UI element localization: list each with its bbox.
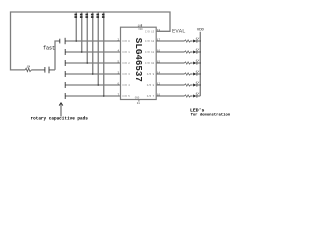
LED D6 (193, 92, 199, 97)
IC pin GND tick (bottom) (138, 100, 140, 102)
svg-text:17: 17 (157, 38, 161, 41)
resistor R7 (LED branch 6) (185, 95, 191, 97)
svg-text:I/O 13: I/O 13 (145, 31, 155, 34)
sense capacitor on pad vertical 2 (80, 14, 83, 18)
junction node pad1/pin1 (76, 40, 78, 42)
wire: pad line 3 to IC pin (65, 62, 120, 64)
annotation arrow to pads (59, 103, 63, 117)
svg-text:I/O 2: I/O 2 (122, 62, 130, 65)
svg-text:I/O 12: I/O 12 (145, 40, 155, 43)
LED D5 (193, 81, 199, 86)
wire: pad line 1 to IC pin (65, 40, 120, 42)
svg-text:I/O 5: I/O 5 (122, 95, 130, 98)
svg-text:18: 18 (138, 24, 142, 27)
sense capacitor on pad vertical 5 (96, 14, 99, 18)
wire: LED branch 2 (156, 51, 200, 53)
LED D3 (193, 59, 199, 64)
wire: common drive loop (top / left frame) (11, 12, 171, 70)
svg-text:rotary capacitive pads: rotary capacitive pads (31, 117, 89, 122)
LED D4 (193, 70, 199, 75)
svg-text:GND: GND (135, 96, 140, 99)
pad end plate line 4 (64, 71, 66, 77)
svg-text:1M: 1M (27, 66, 31, 69)
junction node rail/branch2 (200, 51, 201, 52)
svg-text:I/O 4: I/O 4 (122, 84, 130, 87)
junction node pad4/pin4 (92, 73, 94, 75)
resistor R3 (LED branch 2) (185, 51, 191, 53)
wire: pad vertical 3 (86, 12, 88, 63)
resistor R5 (LED branch 4) (185, 73, 191, 75)
svg-text:I/O 8: I/O 8 (147, 84, 155, 87)
right pin numbers (157, 29, 161, 97)
wire: LED branch 4 (156, 73, 200, 75)
resistor R2 (LED branch 1) (185, 40, 191, 42)
wire: pad line 4 to IC pin (65, 73, 120, 75)
wire: pad line 5 to IC pin (65, 84, 120, 86)
LED D2 (193, 48, 199, 53)
wire: bottom segment resistor to capacitor (31, 69, 44, 71)
svg-text:15: 15 (157, 60, 161, 63)
wire: pad vertical 1 (75, 12, 77, 41)
pad end plate line 6 (64, 93, 66, 99)
svg-text:16: 16 (157, 49, 161, 52)
resistor R4 (LED branch 3) (185, 62, 191, 64)
wire: LED branch 1 (156, 40, 200, 42)
svg-text:EVAL: EVAL (172, 28, 185, 35)
junction node pad2/pin2 (81, 51, 83, 53)
wire: pad vertical 6 (103, 12, 105, 96)
wire: pad vertical 4 (92, 12, 94, 74)
wire: VDD rail (199, 32, 201, 96)
svg-text:VDD: VDD (197, 29, 205, 33)
svg-text:for demonstration: for demonstration (191, 112, 231, 117)
svg-text:12: 12 (157, 82, 161, 85)
LED D1 (193, 37, 199, 42)
capacitor C1 (bottom left) (45, 67, 49, 74)
capacitor C2 (pad line 1 series cap) (60, 38, 65, 44)
pad end plate line 5 (64, 82, 66, 88)
svg-text:SLG46537: SLG46537 (133, 38, 144, 82)
IC pin VDD tick (top) (141, 24, 143, 27)
sense capacitor on pad vertical 1 (74, 14, 77, 18)
svg-text:fast: fast (43, 45, 55, 51)
sense capacitor on pad vertical 3 (85, 14, 88, 18)
left pin numbers (117, 38, 119, 96)
op IC U1 SLG46537 body (121, 27, 157, 99)
svg-text:11: 11 (137, 102, 141, 105)
pad end plate line 2 (64, 49, 66, 55)
right pin labels inside (145, 31, 155, 99)
junction node rail/branch1 (200, 40, 201, 41)
sense capacitor on pad vertical 4 (91, 14, 94, 18)
svg-text:10: 10 (157, 93, 161, 96)
junction node rail/branch5 (200, 84, 201, 85)
junction node pad3/pin3 (87, 62, 89, 64)
svg-text:I/O 11: I/O 11 (145, 51, 155, 54)
junction node pad5/pin5 (98, 84, 100, 86)
wire: pad vertical 2 (81, 12, 83, 52)
wire: LED branch 3 (156, 62, 200, 64)
junction node pad6/pin6 (103, 95, 105, 97)
wire: LED branch 5 (156, 84, 200, 86)
svg-text:13: 13 (157, 29, 161, 32)
svg-text:I/O 0: I/O 0 (122, 40, 130, 43)
sense capacitor on pad vertical 6 (102, 14, 105, 18)
pad end plate line 3 (64, 60, 66, 66)
junction node rail/branch4 (200, 73, 201, 74)
svg-text:I/O 10: I/O 10 (145, 62, 155, 65)
resistor R6 (LED branch 5) (185, 84, 191, 86)
svg-text:VDD: VDD (138, 28, 143, 31)
junction node rail/branch3 (200, 62, 201, 63)
resistor R (bottom left) (25, 68, 31, 71)
left pin labels I/O 0-5 inside (122, 40, 130, 98)
wire: LED branch 6 (156, 95, 200, 97)
wire: capacitor C1 to bus corner (49, 69, 55, 71)
svg-text:14: 14 (157, 71, 161, 74)
wire: pad line 2 to IC pin (65, 51, 120, 53)
wire: vertical bus (fast) (55, 41, 60, 70)
svg-text:I/O 7: I/O 7 (147, 95, 155, 98)
svg-text:I/O 3: I/O 3 (122, 73, 130, 76)
wire: pad line 6 to IC pin (65, 95, 120, 97)
svg-text:I/O 1: I/O 1 (122, 51, 130, 54)
svg-text:I/O 9: I/O 9 (147, 73, 155, 76)
wire: pad vertical 5 (97, 12, 99, 85)
